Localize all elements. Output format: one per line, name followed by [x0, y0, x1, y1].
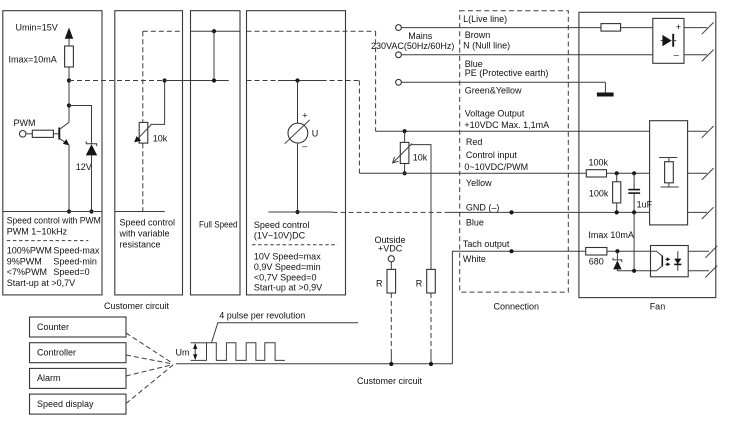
- svg-text:Umin=15V: Umin=15V: [16, 22, 58, 32]
- SECTION: mains and connection: [333, 11, 653, 364]
- wire IC output 3: [688, 211, 707, 213]
- resistor R pull-up 2: [427, 269, 436, 293]
- node shunt resistor gnd: [615, 210, 619, 214]
- rectifier diode cathode lead: [673, 40, 676, 42]
- wire IC output 1: [688, 130, 707, 132]
- wire R1 to node A: [68, 67, 70, 122]
- SECTION: bottom customer circuit: [30, 235, 453, 414]
- svg-text:<0,7V Speed=0: <0,7V Speed=0: [254, 272, 317, 282]
- wire dashed R2 to bus: [430, 293, 432, 352]
- transistor Q1 collector: [59, 122, 69, 129]
- rectifier block: [653, 18, 684, 63]
- svg-text:+: +: [302, 111, 307, 121]
- opto diode body: [674, 259, 681, 264]
- svg-text:R: R: [376, 278, 383, 288]
- svg-text:Red: Red: [466, 137, 483, 147]
- dashed leader Controller: [126, 355, 173, 364]
- connection box (dashed): [460, 11, 569, 292]
- svg-text:+10VDC Max. 1,1mA: +10VDC Max. 1,1mA: [464, 120, 549, 130]
- svg-text:680: 680: [589, 256, 604, 266]
- wire arrow to resistor R1: [68, 38, 70, 46]
- wire supply to speed line: [213, 31, 215, 80]
- zener diode D1 12V body: [86, 144, 97, 155]
- svg-text:Start-up at >0,7V: Start-up at >0,7V: [7, 278, 75, 288]
- SECTION: box3 full speed: [191, 11, 241, 295]
- pulse waveform Um reference base: [191, 359, 207, 361]
- IC internal resistor: [665, 162, 674, 183]
- separator dashed line: [7, 240, 89, 242]
- wire dashed node A to box2 pot: [69, 80, 165, 82]
- svg-text:Imax=10mA: Imax=10mA: [9, 55, 57, 65]
- svg-text:0,9V Speed=min: 0,9V Speed=min: [254, 262, 321, 272]
- node B (collector / zener branch): [67, 103, 71, 107]
- customer circuit box 4 (DC voltage control): [247, 11, 346, 295]
- svg-text:Blue: Blue: [466, 218, 484, 228]
- svg-text:10k: 10k: [153, 134, 168, 144]
- svg-text:GND (–): GND (–): [466, 202, 500, 212]
- wire speed line to box3: [165, 80, 229, 82]
- wire box2 ground bus: [115, 211, 165, 213]
- node after series resistor: [615, 171, 619, 175]
- potentiometer P1 10k body: [139, 122, 148, 143]
- zener diode D2 body: [613, 260, 621, 269]
- terminal L mains: [396, 25, 402, 31]
- wire shunt resistor top lead: [616, 173, 618, 182]
- svg-text:Controller: Controller: [37, 348, 76, 358]
- svg-text:Tach output: Tach output: [463, 239, 510, 249]
- opto light arrow 2: [665, 263, 668, 265]
- node zener-bus junction: [89, 209, 93, 213]
- IC internal top stub: [668, 158, 670, 162]
- potentiometer P2 wiper arrowhead: [393, 157, 399, 163]
- wire voltmeter top lead: [297, 81, 299, 124]
- svg-text:Speed-max: Speed-max: [53, 246, 100, 256]
- svg-text:100%PWM: 100%PWM: [7, 246, 52, 256]
- node speed line junction: [212, 78, 216, 82]
- customer circuit box 1 (PWM speed control): [3, 11, 102, 295]
- ground (protective earth bar): [597, 93, 614, 97]
- svg-text:Green&Yellow: Green&Yellow: [465, 85, 522, 95]
- IC internal bottom stub: [668, 183, 670, 187]
- svg-text:Start-up at >0,9V: Start-up at >0,9V: [254, 282, 322, 292]
- dashed leader Counter: [126, 333, 173, 364]
- wire wiper to node: [151, 81, 165, 125]
- svg-text:+VDC: +VDC: [378, 243, 403, 253]
- wire series resistor to IC: [607, 172, 650, 174]
- wire PE to earth: [604, 82, 606, 92]
- IC internal bottom bar: [661, 186, 679, 188]
- wire dashed speed line out of box4: [322, 80, 360, 82]
- SECTION: box4 DC voltage control: [104, 11, 376, 311]
- connector slash output 2: [702, 168, 714, 180]
- node A (speed set line): [67, 78, 71, 82]
- control IC block: [650, 121, 688, 225]
- svg-text:U: U: [312, 129, 319, 139]
- SECTION: box1 PWM control: [3, 11, 165, 295]
- wire cap top lead: [633, 173, 635, 189]
- node cap gnd: [632, 210, 636, 214]
- customer circuit box 2 (variable resistance): [115, 11, 183, 295]
- wire IC output 2: [688, 172, 707, 174]
- svg-text:PWM 1~10kHz: PWM 1~10kHz: [7, 227, 68, 237]
- svg-text:4 pulse per revolution: 4 pulse per revolution: [219, 311, 305, 321]
- wire dashed GND line left part: [333, 211, 449, 213]
- pulse waveform (4 pulses): [207, 343, 285, 361]
- zener diode D1 12V cathode bar: [86, 141, 97, 146]
- connector slash opto bottom: [705, 266, 717, 278]
- wire rectifier - output: [684, 54, 707, 56]
- wire +10V supply line: [376, 130, 650, 132]
- wire node B to zener branch: [69, 106, 92, 144]
- svg-text:Alarm: Alarm: [37, 373, 61, 383]
- node voltmeter junction: [295, 78, 299, 82]
- opto diode riser: [677, 251, 679, 271]
- wire control input line: [359, 172, 586, 174]
- potentiometer P2 10k body: [400, 142, 409, 163]
- svg-text:Yellow: Yellow: [466, 178, 492, 188]
- svg-text:Speed control with PWM: Speed control with PWM: [7, 216, 101, 226]
- wire emitter to ground bus: [68, 145, 70, 212]
- node tach connection point: [509, 249, 513, 253]
- wire terminal to R pull-up 1: [390, 262, 392, 270]
- supply arrow (to +): [65, 28, 73, 39]
- svg-text:Speed display: Speed display: [37, 399, 94, 409]
- customer circuit box 3 (full speed): [191, 11, 241, 295]
- svg-text:Counter: Counter: [37, 322, 69, 332]
- svg-text:Fan: Fan: [650, 302, 666, 312]
- node pot bottom junction: [403, 171, 407, 175]
- node supply junction: [212, 29, 216, 33]
- block Speed display: [30, 394, 127, 414]
- wire tach signal bus: [176, 363, 452, 365]
- resistor 100k shunt: [613, 182, 621, 203]
- svg-text:–: –: [674, 50, 679, 60]
- wire opto output top: [688, 250, 709, 252]
- wire L line: [401, 27, 652, 29]
- svg-text:White: White: [463, 254, 486, 264]
- wire N line: [401, 54, 652, 56]
- wire pot bottom lead: [404, 164, 406, 174]
- svg-text:Um: Um: [176, 348, 190, 358]
- dashed leader Alarm: [126, 365, 173, 377]
- wire R2 to transistor base: [53, 133, 59, 135]
- node cap top: [632, 171, 636, 175]
- wire zener bottom to return: [617, 269, 650, 270]
- voltmeter U body: [288, 123, 308, 143]
- wire shunt resistor bottom lead: [616, 203, 618, 213]
- wire PE line: [401, 81, 605, 83]
- wire opto output bottom: [688, 270, 709, 272]
- resistor R1: [65, 46, 74, 67]
- SECTION: fan box: [579, 12, 717, 311]
- wire tach output line: [452, 251, 585, 364]
- wire 680 to opto: [607, 250, 651, 252]
- svg-text:Speed control: Speed control: [120, 217, 176, 227]
- connector slash +: [702, 22, 714, 34]
- wire terminal to resistor R2: [26, 133, 33, 135]
- wire GND down to opto return: [633, 212, 635, 270]
- transistor Q1 emitter arrow: [63, 139, 69, 145]
- svg-text:100k: 100k: [589, 158, 609, 168]
- svg-text:1uF: 1uF: [637, 199, 653, 209]
- node voltmeter ground junction: [295, 210, 299, 214]
- block Counter: [30, 317, 127, 337]
- connector slash opto top: [705, 246, 717, 258]
- connector slash output 1: [702, 126, 714, 138]
- svg-text:L(Live line): L(Live line): [463, 14, 507, 24]
- zener diode D2 cathode bar: [613, 258, 622, 262]
- svg-text:12V: 12V: [76, 162, 92, 172]
- pulse waveform Um reference top: [191, 342, 207, 344]
- wire cap bottom lead: [633, 193, 635, 212]
- wire GND line: [448, 211, 650, 213]
- fan box: [579, 12, 716, 297]
- svg-text:9%PWM: 9%PWM: [7, 257, 42, 267]
- resistor 100k series: [586, 170, 606, 177]
- node opto return junction: [632, 269, 636, 273]
- node pot-to-speed-line junction: [163, 78, 167, 82]
- wire supply line box3: [191, 30, 241, 32]
- svg-text:Speed-min: Speed-min: [53, 257, 97, 267]
- terminal PE mains: [396, 79, 402, 85]
- opto light arrow 1: [665, 258, 668, 260]
- block Controller: [30, 343, 127, 363]
- wire pot wiper to R2: [411, 145, 431, 270]
- svg-text:Connection: Connection: [494, 302, 540, 312]
- wire box4 ground bus: [268, 211, 332, 213]
- svg-text:PE (Protective earth): PE (Protective earth): [465, 68, 549, 78]
- wire dashed supply riser down: [375, 31, 377, 131]
- connector slash -: [702, 50, 714, 62]
- svg-text:–: –: [302, 141, 307, 151]
- wire dashed supply through box4 to riser: [247, 30, 376, 32]
- node R2 bus junction: [429, 362, 433, 366]
- voltmeter needle: [285, 120, 310, 144]
- IC internal top bar: [659, 157, 677, 159]
- svg-text:resistance: resistance: [120, 240, 161, 250]
- resistor 680: [586, 248, 607, 256]
- wire solid speed line at voltmeter: [278, 80, 322, 82]
- wire dashed R1 to bus: [390, 293, 392, 352]
- transistor Q1 base bar: [58, 128, 60, 140]
- svg-text:0~10VDC/PWM: 0~10VDC/PWM: [464, 162, 528, 172]
- svg-text:10V Speed=max: 10V Speed=max: [254, 252, 321, 262]
- SECTION: box2 variable resistance: [115, 11, 229, 295]
- potentiometer P1 wiper arrow: [137, 124, 152, 139]
- optocoupler U2 box: [651, 246, 689, 277]
- svg-text:100k: 100k: [589, 189, 609, 199]
- svg-text:10k: 10k: [413, 153, 428, 163]
- opto LED bottom lead: [651, 266, 663, 271]
- connector slash output 3: [702, 207, 714, 219]
- rectifier diode body: [662, 35, 671, 46]
- svg-text:Control input: Control input: [466, 150, 518, 160]
- transistor Q1 emitter: [59, 138, 68, 144]
- leader line to pulse: [212, 323, 358, 343]
- wire dashed supply top: [143, 30, 183, 32]
- resistor R pull-up 1: [387, 269, 396, 293]
- Um measure arrow: [194, 346, 196, 359]
- block Alarm: [30, 368, 127, 388]
- svg-text:R: R: [416, 278, 423, 288]
- svg-text:PWM: PWM: [14, 118, 36, 128]
- node GND connection point: [509, 210, 513, 214]
- wire box1 ground bus: [3, 211, 102, 213]
- opto diode bar: [674, 263, 681, 265]
- svg-text:Brown: Brown: [465, 30, 491, 40]
- resistor on L line: [601, 24, 621, 32]
- terminal PWM input: [19, 131, 26, 138]
- terminal Outside +VDC: [388, 256, 394, 262]
- wire pot top lead: [404, 131, 406, 142]
- potentiometer P1 wiper arrowhead: [134, 136, 141, 142]
- svg-text:Customer circuit: Customer circuit: [357, 376, 423, 386]
- wire dashed speed line into box4: [247, 80, 279, 82]
- svg-text:Imax 10mA: Imax 10mA: [588, 230, 634, 240]
- wire R1 to bus solid: [390, 352, 392, 364]
- svg-text:+: +: [676, 22, 681, 32]
- svg-text:230VAC(50Hz/60Hz): 230VAC(50Hz/60Hz): [371, 41, 454, 51]
- separator dashed line: [252, 244, 338, 246]
- svg-text:Speed control: Speed control: [254, 220, 310, 230]
- svg-text:Full Speed: Full Speed: [199, 220, 238, 230]
- wire R2 to bus solid: [430, 352, 432, 364]
- wire dashed pot feed vertical: [142, 31, 144, 211]
- node R1 bus junction: [389, 362, 393, 366]
- opto LED cathode bar: [661, 256, 663, 267]
- svg-text:Mains: Mains: [408, 31, 433, 41]
- wire zener top lead: [616, 251, 618, 260]
- rectifier diode anode lead: [661, 40, 663, 42]
- rectifier diode cathode bar: [672, 34, 674, 47]
- opto LED top lead: [651, 251, 663, 256]
- svg-text:(1V~10V)DC: (1V~10V)DC: [254, 231, 306, 241]
- wire dashed control riser down: [358, 81, 360, 174]
- svg-text:N (Null line): N (Null line): [463, 41, 510, 51]
- wire voltmeter bottom lead: [297, 143, 299, 212]
- svg-text:<7%PWM: <7%PWM: [7, 267, 47, 277]
- terminal N mains: [396, 52, 402, 58]
- resistor R2 (base): [32, 130, 53, 137]
- capacitor C1 top plate: [628, 189, 640, 191]
- node pot top junction: [403, 129, 407, 133]
- svg-text:Speed=0: Speed=0: [53, 267, 89, 277]
- capacitor C1 bottom plate: [628, 192, 640, 194]
- svg-text:Voltage Output: Voltage Output: [465, 108, 525, 118]
- wire zener to ground bus: [91, 155, 93, 211]
- svg-text:Customer circuit: Customer circuit: [104, 301, 170, 311]
- node emitter-bus junction: [67, 209, 71, 213]
- node tach zener junction: [615, 249, 619, 253]
- potentiometer P2 wiper arrow: [393, 144, 412, 163]
- dashed leader Speed display: [126, 365, 173, 404]
- svg-text:with variable: with variable: [119, 229, 170, 239]
- wire rectifier + output: [684, 27, 707, 29]
